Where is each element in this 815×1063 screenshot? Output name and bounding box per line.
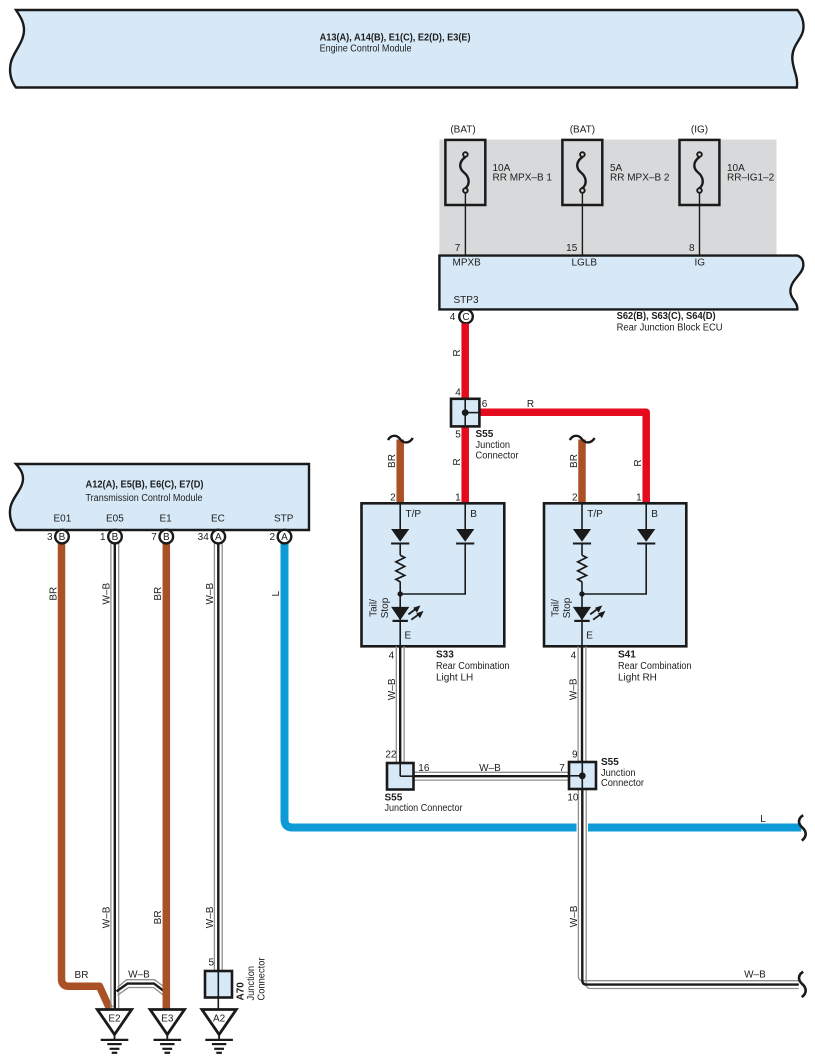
svg-text:4: 4 xyxy=(450,312,456,323)
svg-text:4: 4 xyxy=(571,651,577,662)
svg-text:B: B xyxy=(651,509,658,520)
wire A70 to ground A2 xyxy=(217,998,219,1009)
svg-text:RR MPX–B 2: RR MPX–B 2 xyxy=(610,173,670,184)
svg-text:Stop: Stop xyxy=(380,597,391,618)
svg-text:RR–IG1–2: RR–IG1–2 xyxy=(727,173,775,184)
svg-text:S33: S33 xyxy=(436,649,454,660)
svg-text:Junction Connector: Junction Connector xyxy=(385,803,464,814)
svg-text:R: R xyxy=(452,349,463,356)
wire R from ECU to S55 xyxy=(461,324,469,399)
diode D2 S33 stop input xyxy=(456,529,474,542)
svg-text:Light LH: Light LH xyxy=(436,672,473,683)
junction connector S55 (lower left) xyxy=(385,750,464,814)
wire W-B from E05 to ground E2 xyxy=(102,544,119,1009)
svg-text:STP3: STP3 xyxy=(454,295,479,306)
wire S41 T/P to diode xyxy=(581,503,583,529)
svg-text:L: L xyxy=(271,590,282,596)
svg-text:STP: STP xyxy=(274,514,294,525)
svg-text:W–B: W–B xyxy=(569,678,580,700)
Rear Junction Block ECU box xyxy=(439,256,803,310)
svg-text:A: A xyxy=(215,532,222,543)
wire S33 LED to pin E xyxy=(399,622,401,647)
svg-text:W–B: W–B xyxy=(479,763,501,774)
wire fuse2 to ECU pin 15 xyxy=(581,193,583,256)
svg-text:B: B xyxy=(112,532,119,543)
wire W-B from S33 E to S55 xyxy=(387,646,404,763)
svg-text:B: B xyxy=(59,532,66,543)
svg-text:A: A xyxy=(281,532,288,543)
svg-text:BR: BR xyxy=(153,587,164,601)
svg-text:W–B: W–B xyxy=(387,678,398,700)
svg-text:LGLB: LGLB xyxy=(572,257,598,268)
ground A2 xyxy=(202,1010,236,1053)
svg-text:MPXB: MPXB xyxy=(453,257,482,268)
diode D1 S41 tail input xyxy=(573,529,591,542)
svg-text:W–B: W–B xyxy=(205,583,216,605)
diode D1 S33 tail input xyxy=(391,529,409,542)
S33 Rear Combination Light LH xyxy=(362,503,505,646)
fuse F3 10A RR-IG1-2 xyxy=(680,125,775,206)
svg-text:E3: E3 xyxy=(161,1014,174,1025)
ground E3 xyxy=(150,1010,184,1053)
relay block background xyxy=(439,140,776,256)
svg-text:5: 5 xyxy=(208,958,214,969)
svg-text:16: 16 xyxy=(418,763,430,774)
svg-text:A13(A), A14(B), E1(C), E2(D),: A13(A), A14(B), E1(C), E2(D), E3(E) xyxy=(320,32,471,43)
svg-text:Rear Combination: Rear Combination xyxy=(618,661,692,672)
svg-text:Rear Combination: Rear Combination xyxy=(436,661,510,672)
svg-text:Connector: Connector xyxy=(476,450,520,461)
svg-text:W–B: W–B xyxy=(569,905,580,927)
svg-text:7: 7 xyxy=(455,243,461,254)
wire S33 diode D2 to node to LED xyxy=(400,544,465,622)
Transmission Control Module box xyxy=(10,464,309,530)
wire S41 diode to resistor xyxy=(581,544,583,556)
svg-text:E: E xyxy=(405,631,412,642)
pin 4 connector circle C xyxy=(450,310,473,324)
break L right edge xyxy=(799,815,806,840)
svg-text:Stop: Stop xyxy=(562,597,573,618)
wire L from STP down and right xyxy=(285,544,802,828)
svg-text:2: 2 xyxy=(390,493,396,504)
svg-text:Connector: Connector xyxy=(256,957,267,1001)
svg-text:S55: S55 xyxy=(385,792,403,803)
svg-text:B: B xyxy=(470,509,477,520)
svg-text:E05: E05 xyxy=(106,514,124,525)
wire S33 T/P to diode xyxy=(399,503,401,529)
svg-text:W–B: W–B xyxy=(128,970,150,981)
svg-text:S55: S55 xyxy=(476,429,494,440)
svg-text:C: C xyxy=(462,312,469,323)
LED tail/stop lamp S41 xyxy=(573,607,591,620)
svg-text:IG: IG xyxy=(695,257,706,268)
svg-text:W–B: W–B xyxy=(102,906,113,928)
svg-text:BR: BR xyxy=(387,454,398,468)
svg-text:5: 5 xyxy=(455,430,461,441)
wire fuse3 to ECU pin 8 xyxy=(699,193,701,256)
svg-text:B: B xyxy=(163,532,170,543)
svg-text:A70: A70 xyxy=(236,982,247,1001)
svg-text:15: 15 xyxy=(566,243,578,254)
wire fuse1 to ECU pin 7 xyxy=(464,193,466,256)
junction connector A70 xyxy=(205,957,267,1001)
svg-text:8: 8 xyxy=(689,243,695,254)
svg-text:T/P: T/P xyxy=(587,509,603,520)
resistor S33 xyxy=(396,555,405,582)
wire W-B from S41 E to S55 xyxy=(569,646,586,762)
svg-text:Tail/: Tail/ xyxy=(369,599,380,617)
svg-text:Light RH: Light RH xyxy=(618,672,657,683)
svg-text:2: 2 xyxy=(572,493,578,504)
svg-text:A12(A), E5(B), E6(C), E7(D): A12(A), E5(B), E6(C), E7(D) xyxy=(86,479,204,490)
wire BR from E1 to ground E3 xyxy=(163,544,171,1009)
svg-text:Tail/: Tail/ xyxy=(551,599,562,617)
resistor S41 xyxy=(578,555,587,582)
svg-text:R: R xyxy=(527,399,534,410)
wire W-B from EC to A70 xyxy=(205,544,222,972)
svg-text:S62(B), S63(C), S64(D): S62(B), S63(C), S64(D) xyxy=(617,311,716,322)
svg-text:3: 3 xyxy=(47,532,53,543)
svg-text:E1: E1 xyxy=(160,514,173,525)
svg-text:7: 7 xyxy=(151,532,157,543)
svg-text:22: 22 xyxy=(385,750,397,761)
svg-text:BR: BR xyxy=(153,910,164,924)
svg-text:W–B: W–B xyxy=(102,583,113,605)
wire R from S55 pin 6 to S41 pin B xyxy=(479,412,646,503)
svg-text:W–B: W–B xyxy=(205,906,216,928)
svg-text:BR: BR xyxy=(48,587,59,601)
svg-text:(IG): (IG) xyxy=(691,125,708,136)
junction connector S55 (lower right) xyxy=(559,750,644,804)
svg-text:(BAT): (BAT) xyxy=(450,125,475,136)
svg-text:Transmission Control Module: Transmission Control Module xyxy=(86,493,203,504)
LED tail/stop lamp S33 xyxy=(391,607,409,620)
svg-text:Connector: Connector xyxy=(601,778,645,789)
svg-text:S41: S41 xyxy=(618,649,636,660)
svg-text:R: R xyxy=(633,459,644,466)
svg-text:(BAT): (BAT) xyxy=(570,125,595,136)
svg-text:4: 4 xyxy=(455,388,461,399)
wire R from S55 pin 5 to S33 pin B xyxy=(461,426,469,503)
fuse F1 10A RR MPX-B 1 xyxy=(445,125,552,206)
svg-text:A2: A2 xyxy=(213,1014,226,1025)
svg-text:Rear Junction Block ECU: Rear Junction Block ECU xyxy=(617,323,723,334)
S41 Rear Combination Light RH xyxy=(544,503,686,646)
svg-text:2: 2 xyxy=(269,532,275,543)
ECM connector banner xyxy=(10,10,803,88)
wire S33 diode to resistor xyxy=(399,544,401,556)
wire S41 resistor to node xyxy=(581,582,583,594)
svg-text:1: 1 xyxy=(455,493,461,504)
svg-text:1: 1 xyxy=(100,532,106,543)
svg-text:RR MPX–B 1: RR MPX–B 1 xyxy=(493,173,553,184)
wire W-B from S55 pin 10 down right to edge xyxy=(569,789,799,989)
svg-text:1: 1 xyxy=(636,493,642,504)
svg-text:34: 34 xyxy=(198,532,210,543)
svg-text:E2: E2 xyxy=(108,1014,121,1025)
svg-text:BR: BR xyxy=(75,970,89,981)
svg-text:9: 9 xyxy=(572,750,578,761)
svg-text:T/P: T/P xyxy=(406,509,422,520)
break W-B right edge xyxy=(799,972,806,997)
ground E2 xyxy=(97,1010,131,1053)
wire BR into S41 T/P with break xyxy=(569,436,595,504)
wire S41 B to diode xyxy=(645,503,647,529)
wire S33 B to diode xyxy=(464,503,466,529)
wire S33 resistor to node xyxy=(399,582,401,594)
svg-text:W–B: W–B xyxy=(744,970,766,981)
wire W-B S55 to S55 horizontal xyxy=(413,763,568,780)
junction connector S55 (top) xyxy=(451,399,519,462)
svg-text:E: E xyxy=(586,631,593,642)
wire S41 diode D2 to node to LED xyxy=(582,544,646,622)
wire W-B bridge to E3 xyxy=(117,970,167,997)
svg-text:R: R xyxy=(452,458,463,465)
svg-text:BR: BR xyxy=(569,454,580,468)
junction node S33 xyxy=(398,591,403,596)
svg-text:S55: S55 xyxy=(601,757,619,768)
diode D2 S41 stop input xyxy=(637,529,655,542)
svg-text:7: 7 xyxy=(559,763,565,774)
svg-text:4: 4 xyxy=(389,651,395,662)
svg-text:Engine Control Module: Engine Control Module xyxy=(320,43,412,54)
svg-text:E01: E01 xyxy=(54,514,72,525)
svg-text:EC: EC xyxy=(211,514,225,525)
svg-text:Junction: Junction xyxy=(476,440,511,451)
junction node S41 xyxy=(579,591,584,596)
wire S41 LED to pin E xyxy=(581,622,583,647)
wire BR into S33 T/P with break xyxy=(387,436,413,504)
fuse F2 5A RR MPX-B 2 xyxy=(562,125,670,206)
wire BR from E01 to ground E2 xyxy=(62,544,110,1009)
svg-text:L: L xyxy=(760,814,766,825)
svg-text:10: 10 xyxy=(567,793,579,804)
svg-text:6: 6 xyxy=(482,399,488,410)
